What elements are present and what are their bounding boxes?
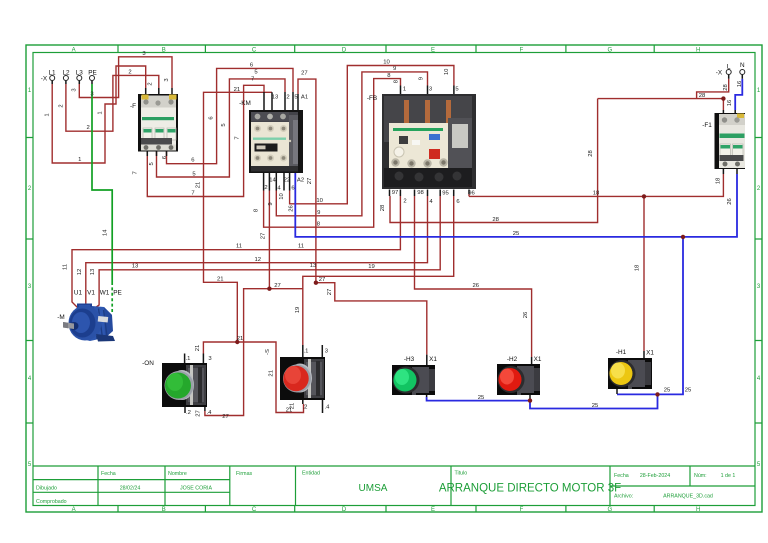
svg-text:-X: -X (41, 76, 48, 83)
svg-text:11: 11 (298, 244, 304, 250)
svg-text:.1: .1 (186, 356, 191, 362)
svg-text:16: 16 (737, 80, 743, 87)
svg-text:27: 27 (196, 410, 202, 417)
svg-text:18: 18 (593, 191, 600, 197)
svg-text:28: 28 (699, 93, 706, 99)
svg-text:95: 95 (442, 191, 449, 197)
svg-text:Fecha: Fecha (614, 473, 629, 479)
svg-text:G: G (607, 48, 612, 54)
svg-text:A: A (72, 507, 76, 513)
svg-text:-F1: -F1 (702, 122, 712, 129)
svg-text:-X: -X (716, 70, 723, 77)
svg-text:X1: X1 (646, 350, 654, 357)
svg-text:19: 19 (368, 264, 375, 270)
svg-text:.1: .1 (304, 349, 309, 355)
svg-text:13: 13 (90, 268, 96, 275)
svg-text:28: 28 (588, 150, 594, 157)
svg-text:98: 98 (417, 190, 424, 196)
svg-text:13: 13 (132, 263, 139, 269)
svg-text:10: 10 (316, 198, 323, 204)
svg-text:9: 9 (317, 210, 320, 216)
svg-text:N: N (740, 62, 745, 69)
svg-text:-H3: -H3 (404, 356, 415, 363)
svg-text:28/02/24: 28/02/24 (120, 486, 141, 492)
svg-text:1: 1 (78, 157, 81, 163)
svg-text:D: D (342, 507, 347, 513)
svg-text:28: 28 (492, 217, 499, 223)
svg-text:7: 7 (235, 136, 241, 139)
svg-text:27: 27 (301, 71, 308, 77)
svg-text:A: A (72, 48, 76, 54)
svg-text:Dibujado: Dibujado (36, 486, 57, 492)
svg-text:26: 26 (289, 205, 295, 212)
svg-text:C: C (252, 507, 257, 513)
svg-text:JOSE CORIA: JOSE CORIA (180, 486, 213, 492)
svg-text:21: 21 (234, 87, 241, 93)
svg-text:.4: .4 (207, 410, 213, 416)
svg-text:W1: W1 (100, 290, 110, 297)
svg-text:X1: X1 (534, 356, 542, 363)
svg-text:21: 21 (217, 277, 224, 283)
svg-text:12: 12 (255, 257, 262, 263)
svg-text:12: 12 (77, 269, 83, 276)
svg-text:10: 10 (383, 60, 390, 66)
svg-text:F: F (520, 507, 524, 513)
svg-text:14: 14 (103, 229, 109, 236)
svg-text:11: 11 (236, 244, 242, 250)
svg-text:-S: -S (265, 349, 271, 355)
svg-text:Fecha: Fecha (101, 471, 116, 477)
svg-text:7: 7 (251, 77, 254, 83)
svg-text:-F: -F (130, 103, 136, 110)
svg-text:13: 13 (310, 263, 317, 269)
svg-text:X1: X1 (429, 356, 437, 363)
svg-text:26: 26 (727, 198, 733, 205)
svg-text:E: E (431, 507, 435, 513)
svg-text:27: 27 (327, 289, 333, 296)
svg-text:1: 1 (98, 111, 104, 114)
svg-text:97: 97 (392, 190, 399, 196)
svg-text:Comprobado: Comprobado (36, 499, 67, 505)
svg-text:21: 21 (195, 345, 201, 352)
svg-text:7: 7 (133, 171, 139, 174)
svg-text:19: 19 (295, 307, 301, 314)
svg-text:25: 25 (664, 388, 671, 394)
svg-text:PE: PE (113, 290, 122, 297)
svg-text:9: 9 (268, 202, 274, 205)
svg-text:D: D (342, 48, 347, 54)
svg-text:B: B (162, 48, 166, 54)
svg-text:C: C (252, 48, 257, 54)
svg-text:Titulo: Titulo (455, 471, 468, 477)
svg-text:27: 27 (222, 414, 229, 420)
svg-text:H: H (696, 507, 700, 513)
svg-text:25: 25 (685, 388, 692, 394)
svg-text:96: 96 (468, 191, 475, 197)
svg-text:A1: A1 (301, 95, 308, 101)
svg-text:ARRANQUE_3D.cad: ARRANQUE_3D.cad (663, 494, 713, 500)
svg-text:27: 27 (307, 178, 313, 185)
svg-text:13: 13 (272, 95, 279, 101)
svg-text:27: 27 (261, 233, 267, 240)
svg-text:-ON: -ON (142, 360, 154, 367)
svg-text:22: 22 (284, 178, 291, 184)
svg-text:2: 2 (87, 125, 90, 131)
svg-text:2: 2 (286, 95, 289, 101)
svg-text:2: 2 (264, 185, 267, 191)
svg-text:11: 11 (62, 264, 68, 270)
svg-text:27: 27 (319, 277, 326, 283)
svg-text:ARRANQUE DIRECTO MOTOR 3F: ARRANQUE DIRECTO MOTOR 3F (439, 483, 621, 495)
svg-text:2: 2 (128, 70, 131, 76)
svg-text:U1: U1 (74, 290, 83, 297)
svg-text:21: 21 (237, 336, 244, 342)
svg-text:21: 21 (195, 182, 201, 189)
svg-text:18: 18 (716, 177, 722, 184)
svg-text:1: 1 (45, 113, 51, 116)
svg-text:2: 2 (59, 104, 65, 107)
svg-text:B: B (162, 507, 166, 513)
svg-text:2: 2 (403, 199, 406, 205)
svg-text:25: 25 (478, 395, 485, 401)
svg-text:26: 26 (523, 311, 529, 318)
svg-text:18: 18 (635, 264, 641, 271)
svg-text:Núm:: Núm: (694, 473, 707, 479)
svg-text:16: 16 (727, 99, 733, 106)
svg-text:26: 26 (473, 283, 480, 289)
svg-text:28-Feb-2024: 28-Feb-2024 (640, 473, 670, 479)
svg-text:A2: A2 (297, 178, 304, 184)
svg-text:-KM: -KM (239, 100, 251, 107)
svg-text:25: 25 (592, 403, 599, 409)
svg-text:2: 2 (147, 82, 153, 85)
svg-text:21: 21 (290, 403, 296, 410)
svg-text:.2: .2 (186, 410, 191, 416)
svg-text:F: F (520, 48, 524, 54)
svg-text:9: 9 (393, 66, 396, 72)
svg-text:7: 7 (191, 191, 194, 197)
svg-text:14: 14 (269, 178, 276, 184)
svg-text:UMSA: UMSA (359, 483, 388, 494)
svg-text:28: 28 (380, 204, 386, 211)
svg-text:1 de 1: 1 de 1 (721, 473, 736, 479)
svg-text:Firmas: Firmas (236, 471, 253, 477)
svg-text:10: 10 (279, 193, 285, 200)
svg-text:.2: .2 (303, 405, 308, 411)
svg-text:21: 21 (269, 370, 275, 377)
svg-text:E: E (431, 48, 435, 54)
svg-text:28: 28 (723, 84, 729, 91)
svg-text:-H2: -H2 (507, 356, 518, 363)
svg-text:10: 10 (444, 68, 450, 75)
svg-text:27: 27 (274, 283, 281, 289)
svg-text:H: H (696, 48, 700, 54)
svg-text:-FB: -FB (367, 95, 377, 102)
svg-text:25: 25 (513, 231, 520, 237)
svg-text:-H1: -H1 (616, 349, 627, 356)
svg-text:-M: -M (57, 314, 64, 321)
svg-text:V1: V1 (87, 290, 95, 297)
svg-text:Entidad: Entidad (302, 471, 320, 477)
svg-text:1: 1 (403, 87, 406, 93)
svg-text:G: G (607, 507, 612, 513)
svg-text:.4: .4 (325, 405, 331, 411)
svg-text:9: 9 (418, 77, 424, 80)
svg-text:Nombre: Nombre (168, 471, 187, 477)
